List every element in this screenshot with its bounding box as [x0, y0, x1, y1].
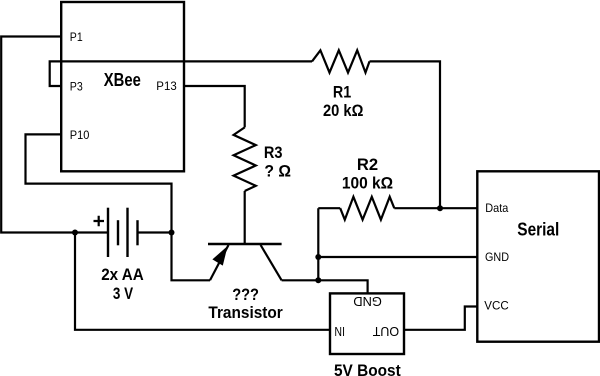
- wire R1 to Data node: [370, 61, 441, 208]
- junction dot battery left: [72, 230, 78, 236]
- wire P1 to battery left: [1, 37, 108, 233]
- svg-text:P13: P13: [156, 79, 177, 93]
- junction dot collector line: [315, 277, 321, 283]
- wire battery right to node: [138, 231, 172, 233]
- svg-text:R1: R1: [333, 83, 351, 102]
- svg-text:20 kΩ: 20 kΩ: [323, 101, 363, 120]
- junction dot GND line: [315, 254, 321, 260]
- svg-text:P3: P3: [70, 79, 83, 93]
- wire P10 to emitter: [26, 134, 211, 280]
- battery short plate 2: [136, 220, 138, 245]
- transistor emitter arrow: [212, 246, 227, 266]
- battery long plate 1: [107, 208, 109, 257]
- svg-text:GND: GND: [353, 294, 382, 309]
- wire boost OUT to Serial VCC: [404, 307, 478, 330]
- svg-text:???: ???: [232, 285, 259, 304]
- resistor R2: [340, 197, 394, 220]
- wire GND line: [318, 256, 477, 258]
- svg-text:IN: IN: [334, 324, 345, 339]
- XBee box U1: [61, 2, 184, 171]
- svg-text:Serial: Serial: [517, 219, 559, 239]
- transistor base bar: [208, 243, 282, 246]
- svg-text:Transistor: Transistor: [208, 303, 283, 322]
- svg-text:OUT: OUT: [373, 324, 400, 339]
- wire R2 left vertical: [317, 208, 319, 280]
- svg-text:P1: P1: [70, 30, 83, 44]
- resistor R3: [234, 127, 256, 191]
- Serial box: [477, 171, 599, 341]
- svg-text:3 V: 3 V: [113, 284, 134, 303]
- resistor R1: [312, 50, 370, 72]
- svg-text:? Ω: ? Ω: [264, 162, 291, 181]
- battery long plate 2: [126, 208, 128, 257]
- wire node to 5V boost IN: [75, 233, 330, 330]
- svg-text:XBee: XBee: [104, 70, 141, 90]
- battery short plate 1: [117, 220, 119, 245]
- wire R2 to Serial Data: [394, 207, 477, 209]
- svg-text:2x AA: 2x AA: [101, 265, 144, 284]
- junction dot Data line: [437, 205, 443, 211]
- svg-text:VCC: VCC: [484, 298, 509, 312]
- 5V Boost box: [330, 293, 404, 354]
- svg-text:Data: Data: [485, 201, 508, 215]
- wire collector to boost GND: [282, 280, 368, 293]
- wire R2 lead left: [318, 207, 340, 209]
- transistor collector diagonal: [261, 245, 282, 280]
- svg-text:P10: P10: [70, 128, 90, 142]
- wire R3 to transistor base: [244, 191, 246, 243]
- wire P3 stub: [50, 61, 312, 86]
- svg-text:R3: R3: [264, 143, 283, 162]
- wire P13 to R3: [184, 86, 245, 127]
- svg-text:100 kΩ: 100 kΩ: [342, 173, 393, 192]
- svg-text:R2: R2: [357, 155, 378, 174]
- svg-text:GND: GND: [485, 250, 509, 264]
- svg-text:5V Boost: 5V Boost: [334, 361, 401, 376]
- junction dot battery right: [169, 230, 175, 236]
- transistor emitter diagonal: [210, 245, 229, 280]
- battery plus sign: [94, 216, 105, 227]
